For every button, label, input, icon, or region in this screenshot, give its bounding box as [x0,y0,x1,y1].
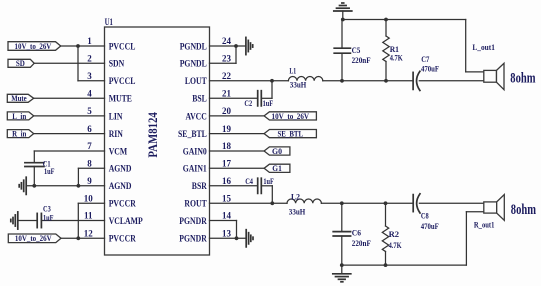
ground symbol (bottom, filter R) [333,265,351,282]
svg-text:10V_to_26V: 10V_to_26V [15,42,52,51]
ground symbol (PGNDL, pin 24) [246,37,253,54]
speaker R_out1 8ohm [484,195,505,221]
wire to ground (PGNDL) [236,45,246,47]
svg-text:LIN: LIN [109,111,123,121]
wire pin11 VCLAMP to C3 [41,220,104,222]
wire ROUT down to R2 [385,203,387,226]
svg-text:SD: SD [16,59,25,68]
svg-text:4: 4 [87,89,92,99]
wire C8 to speaker R [419,202,483,204]
svg-text:LOUT: LOUT [185,76,207,86]
svg-text:C5: C5 [352,45,361,55]
svg-text:SDN: SDN [109,59,125,69]
junction ROUT/R2 [384,201,388,205]
net flag SE_BTL (pin 19) [264,130,316,138]
svg-text:ROUT: ROUT [184,199,206,209]
ground symbol (top, filter L) [334,3,352,11]
svg-text:1: 1 [87,36,92,46]
svg-text:5: 5 [87,106,92,116]
capacitor C1 1uF [25,163,44,167]
svg-text:33uH: 33uH [289,207,306,217]
svg-text:10V_to_26V: 10V_to_26V [15,234,52,243]
wire bottom ground rail [342,264,467,266]
capacitor C4 1uF (bootstrap R) [258,178,262,193]
net flag G0 (pin 18) [264,147,290,155]
capacitor C5 220nF [334,48,350,53]
wire pin13 PGNDR to ground [210,237,247,239]
wire C4 to riser [261,185,272,187]
svg-text:8: 8 [87,159,92,169]
junction bottom rail/ground [340,263,344,267]
svg-text:PVCCR: PVCCR [109,234,137,244]
junction R2/bottom rail [384,263,388,267]
wire pin24 to pin23 [235,46,237,63]
wire C4 riser down to ROUT [271,186,273,204]
wire Mute to pin4 [34,97,105,99]
wire C6 to bottom rail [341,236,343,265]
junction ROUT/C4 [270,201,274,205]
svg-text:U1: U1 [105,17,114,27]
svg-text:MUTE: MUTE [109,94,132,104]
svg-text:R2: R2 [389,229,400,239]
svg-text:11: 11 [84,211,93,221]
svg-text:Mute: Mute [11,94,27,103]
svg-text:PGNDR: PGNDR [179,234,207,244]
wire R_in to pin6 [34,133,105,135]
svg-text:7: 7 [87,141,92,151]
svg-text:16: 16 [222,176,232,186]
svg-text:PGNDL: PGNDL [180,41,207,51]
wire pin20 AVCC to flag [210,115,265,117]
wire pin9 AGND to ground [26,185,104,187]
junction LOUT/C2 [270,79,274,83]
svg-text:10: 10 [84,194,94,204]
svg-text:1uF: 1uF [263,98,274,108]
net flag Mute (pin 4) [7,94,33,102]
wire pin1 from flag to U1 [61,45,105,47]
wire vertical pin1 to pin3 [77,46,79,81]
wire VCM down to C1 [33,151,35,163]
svg-text:20: 20 [222,106,232,116]
svg-text:AGND: AGND [109,181,132,191]
wire pin18 to flag [210,150,265,152]
wire rail down to R1 [385,20,387,37]
svg-text:470uF: 470uF [421,63,439,73]
wire into pin3 [78,80,105,82]
ground symbol (PGNDR, pin 13) [246,230,253,247]
speaker L_out1 8ohm [484,63,504,89]
svg-text:VCLAMP: VCLAMP [109,216,143,226]
wire pin16 BSR to C4 [210,185,258,187]
power flag 10V_to_26V (pin 20 AVCC) [264,112,316,120]
svg-text:PGNDL: PGNDL [180,59,207,69]
svg-text:L_in: L_in [12,112,26,121]
junction LOUT/R1 [384,79,388,83]
capacitor C8 470uF (output coupling R) [413,194,420,213]
net flag SD (pin 2) [8,59,34,67]
svg-text:23: 23 [222,54,232,64]
svg-text:L1: L1 [289,65,296,75]
svg-text:4.7K: 4.7K [389,240,402,250]
wire C2 to pin21 BSL [210,97,258,99]
wire C1 to AGND rail [33,167,35,186]
svg-text:15: 15 [222,194,232,204]
power flag 10V_to_26V (pin 12) [8,234,61,243]
junction LOUT/C5 [340,79,344,83]
junction top rail/C5 [341,18,345,22]
wire pin23 PGNDL [210,62,237,64]
svg-text:BSR: BSR [192,181,207,191]
wire top ground rail [343,19,466,21]
svg-text:GAIN1: GAIN1 [183,164,208,174]
wire down to C2 [271,81,273,99]
svg-text:10V_to_26V: 10V_to_26V [272,112,310,121]
net flag G1 (pin 17) [264,164,290,172]
wire ROUT pin15 [210,202,288,204]
wire pin7 VCM [34,150,104,152]
net flag L_in (pin 5) [7,112,33,120]
svg-text:18: 18 [222,141,232,151]
wire R1 to LOUT [385,62,387,81]
svg-text:L_out1: L_out1 [472,42,495,52]
wire pin14 PGNDR [210,220,237,222]
inductor L2 33uH [287,199,321,203]
capacitor C3 1uF [37,213,41,227]
capacitor C2 1uF (bootstrap L) [258,91,262,106]
svg-text:4.7K: 4.7K [390,53,403,63]
wire rail down to speaker return [465,20,467,72]
wire pin14 down to pin13 [236,221,238,239]
wire L1 to C7 [323,80,413,82]
svg-text:C2: C2 [244,98,252,108]
svg-text:14: 14 [222,211,232,221]
svg-text:24: 24 [222,36,232,46]
svg-text:19: 19 [222,124,232,134]
junction ROUT/C6 [340,201,344,205]
svg-text:1uF: 1uF [263,176,274,186]
wire SD to pin2 [34,62,104,64]
wire L2 to C8 [321,202,413,204]
svg-text:22: 22 [222,71,232,81]
junction pin24/pin23 [234,44,238,48]
svg-text:PAM8124: PAM8124 [145,112,160,158]
capacitor C6 220nF [333,232,350,236]
svg-text:C4: C4 [245,176,253,186]
svg-text:SE_BTL: SE_BTL [277,130,303,139]
power flag 10V_to_26V (pin 1) [8,42,61,51]
svg-text:21: 21 [222,89,232,99]
svg-text:1uF: 1uF [44,166,55,176]
svg-text:RIN: RIN [109,129,124,139]
wire C2 right plate to riser [261,97,272,99]
svg-text:BSL: BSL [192,94,207,104]
junction pin14/pin13 [235,236,239,240]
svg-text:17: 17 [222,159,232,169]
junction pin1/pin3 tie [76,44,80,48]
svg-text:VCM: VCM [109,146,128,156]
wire bottom rail up to speaker return [465,212,467,265]
net flag R_in (pin 6) [7,130,33,138]
junction pin10/pin12 [76,236,80,240]
wire rail down to C5 [341,20,343,49]
svg-text:SE_BTL: SE_BTL [178,129,207,139]
svg-text:G0: G0 [272,147,282,156]
svg-text:PVCCL: PVCCL [109,76,136,86]
wire down to C6 [341,203,343,231]
svg-text:R_out1: R_out1 [474,220,495,230]
svg-text:AVCC: AVCC [186,111,207,121]
svg-text:C8: C8 [421,211,429,221]
wire C5 to LOUT [341,53,343,81]
svg-text:PVCCR: PVCCR [109,199,137,209]
wire pin17 to flag [210,167,265,169]
op-amp/IC U1 PAM8124 body [105,27,210,255]
svg-text:L2: L2 [291,192,300,202]
svg-text:13: 13 [222,229,232,239]
wire R2 to bottom rail [385,252,387,266]
wire pin24 PGNDL [210,45,237,47]
svg-text:PGNDR: PGNDR [179,216,207,226]
svg-text:8ohm: 8ohm [511,202,537,218]
svg-text:PVCCL: PVCCL [109,41,136,51]
wire pin19 to flag [210,133,265,135]
svg-text:3: 3 [87,71,92,81]
svg-text:C6: C6 [352,228,361,238]
svg-text:9: 9 [87,176,92,186]
svg-text:33uH: 33uH [290,80,307,90]
wire speaker R bottom terminal [466,211,483,213]
ground symbol (AGND, left) [19,177,26,194]
svg-text:470uF: 470uF [421,221,439,231]
svg-text:12: 12 [84,229,94,239]
wire C7 to speaker L [419,80,484,82]
wire LOUT pin22 [210,80,289,82]
capacitor C7 470uF (output coupling L) [413,71,420,90]
junction pin8/pin9 [77,184,81,188]
junction top rail/R1 [384,18,388,22]
wire L_in to pin5 [34,115,105,117]
svg-text:1uF: 1uF [43,212,54,222]
svg-text:GAIN0: GAIN0 [183,146,208,156]
wire pin8 AGND [78,167,104,169]
wire ground stem to top rail [342,11,344,20]
wire pin10 PVCCR [78,202,104,204]
inductor L1 33uH [288,77,322,81]
svg-text:220nF: 220nF [352,238,371,248]
junction C1/AGND [32,184,36,188]
svg-text:220nF: 220nF [352,55,371,65]
wire speaker L top terminal [466,71,484,73]
svg-text:2: 2 [87,54,92,64]
wire C3 to ground [18,220,37,222]
svg-text:R_in: R_in [12,130,27,139]
wire pin10 down to pin12 [77,203,79,238]
svg-text:AGND: AGND [109,164,132,174]
ground symbol (C3, left) [11,212,18,229]
wire pin8 down to pin9 rail [77,168,79,186]
svg-text:G1: G1 [272,164,282,173]
svg-text:6: 6 [87,124,92,134]
svg-text:8ohm: 8ohm [510,71,536,87]
wire pin12 from flag [61,237,105,239]
